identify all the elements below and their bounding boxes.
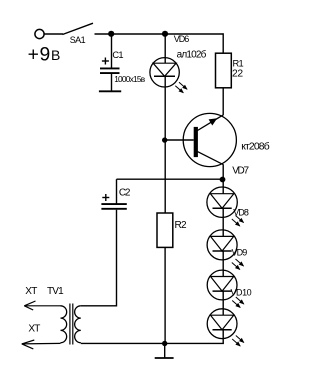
label +9В [28,44,61,65]
ground [155,343,174,358]
transformer TV1 primary winding [61,306,67,343]
svg-text:C1: C1 [112,50,123,60]
svg-text:VD10: VD10 [231,287,252,297]
resistor R1 [216,53,232,88]
wire XT bottom lead with arrow [22,340,61,349]
arrows VD10 light [232,336,244,347]
svg-text:VD6: VD6 [174,34,189,44]
svg-text:XT: XT [28,323,40,334]
wire C2 top lead [116,179,118,203]
wire R2 bottom lead [164,247,166,343]
wire VD6 cathode down to R2 [164,76,166,213]
svg-text:SA1: SA1 [70,35,86,45]
capacitor C1 [100,68,120,73]
arrows VD6 light [175,82,187,93]
wire VD8 to VD9 [222,251,224,277]
svg-text:R2: R2 [175,220,188,231]
wire terminal to switch [44,33,63,35]
wire VD9 to VD10 [222,291,224,315]
wire VD7 anode lead [222,180,224,194]
LED VD9 [207,270,237,300]
ground bar C1 [99,90,121,92]
LED VD8 [207,230,237,260]
svg-text:R1: R1 [233,59,244,69]
svg-text:VD9: VD9 [232,248,248,258]
wire emitter down [222,164,224,180]
svg-text:1000x15в: 1000x15в [114,74,146,84]
svg-text:XT: XT [25,286,37,297]
wire VD7 to VD8 [222,208,224,236]
node ground junction [162,341,167,346]
polarity plus C1 [102,58,109,65]
svg-text:VD7: VD7 [232,165,249,176]
arrows VD7 light [232,216,244,227]
node VD7 junction [220,177,226,183]
svg-text:C2: C2 [119,187,131,198]
wire C1 top lead [111,34,113,68]
terminal +9V [35,29,44,38]
svg-text:ал102б: ал102б [177,48,207,60]
svg-text:TV1: TV1 [47,286,64,297]
wire C2 to VD7 node [117,178,224,180]
transformer TV1 core [70,304,73,345]
wire VD6 anode lead [164,34,166,63]
svg-text:В: В [51,47,60,63]
wire R1 top lead [222,33,224,53]
wire R1 bottom to collector [222,88,224,115]
node junction C1 [108,31,114,37]
LED VD10 [207,309,237,339]
LED VD6 [150,58,179,87]
wire XT top lead with arrow [24,301,60,310]
node base junction [162,137,167,142]
arrows VD8 light [232,259,244,270]
resistor R2 [157,213,173,247]
svg-text:22: 22 [232,68,243,79]
arrows VD9 light [232,297,244,308]
polarity plus C2 [102,194,109,201]
wire top rail [95,33,224,35]
wire bottom rail [81,342,224,344]
wire C1 bottom lead [111,74,113,91]
svg-text:+9: +9 [28,44,51,65]
capacitor C2 [101,204,126,209]
wire C2 bottom lead [81,210,117,306]
wire base [165,139,194,141]
transformer TV1 secondary winding [75,306,81,343]
node junction VD6 [162,31,168,37]
svg-text:кт208б: кт208б [241,141,270,153]
wire VD10 to bottom rail [222,330,224,344]
LED VD7 [207,187,237,217]
transistor Q1 кт208б [183,113,236,166]
switch SA1 [63,23,94,34]
